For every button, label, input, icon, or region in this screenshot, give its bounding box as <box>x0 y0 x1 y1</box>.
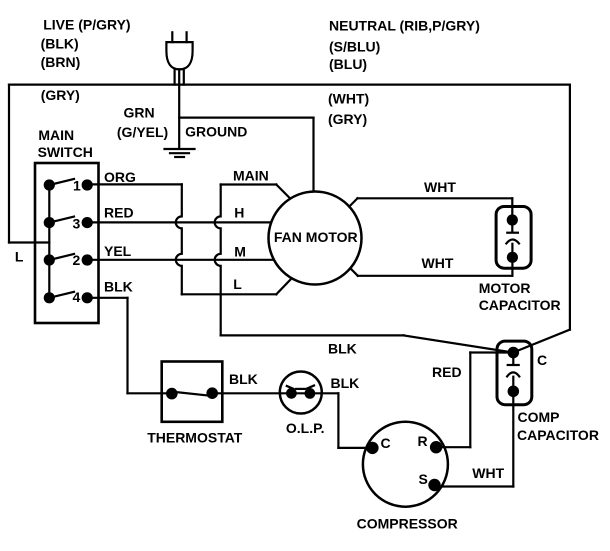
svg-text:L: L <box>233 276 242 292</box>
compressor body <box>363 422 448 507</box>
svg-text:(WHT): (WHT) <box>328 91 369 107</box>
power plug P1 <box>166 32 192 84</box>
svg-text:BLK: BLK <box>331 375 360 391</box>
wire: top supply bus (live/neutral) <box>9 83 570 85</box>
svg-text:MAIN: MAIN <box>233 167 269 183</box>
wire WHT: fan motor to motor capacitor top <box>349 198 512 220</box>
svg-text:COMPRESSOR: COMPRESSOR <box>357 516 458 532</box>
svg-text:S: S <box>419 471 428 487</box>
svg-text:GRN: GRN <box>124 105 155 121</box>
motor capacitor C1 body <box>496 207 531 269</box>
svg-text:WHT: WHT <box>422 255 454 271</box>
svg-text:YEL: YEL <box>104 243 132 259</box>
wire BLK rail to comp capacitor C node <box>221 335 514 352</box>
thermostat TH1 box <box>162 362 223 422</box>
svg-text:GROUND: GROUND <box>185 124 247 140</box>
thermostat contact dots <box>166 388 178 400</box>
svg-text:MOTOR: MOTOR <box>479 280 531 296</box>
svg-text:FAN MOTOR: FAN MOTOR <box>274 229 358 245</box>
comp capacitor C2 body <box>497 341 532 405</box>
svg-text:CAPACITOR: CAPACITOR <box>517 427 599 443</box>
svg-text:WHT: WHT <box>472 465 504 481</box>
compressor terminal S dot <box>428 479 440 491</box>
switch pole 1 lever <box>49 179 74 185</box>
switch pole 4 lever <box>49 292 74 298</box>
svg-text:(S/BLU): (S/BLU) <box>329 39 380 55</box>
wire: ground branch to fan motor frame <box>179 118 313 192</box>
svg-text:C: C <box>537 352 547 368</box>
wire RED: comp capacitor to compressor R <box>436 353 507 448</box>
wire MAIN vertical with hops, down to BLK rail <box>215 185 221 336</box>
wire: neutral leg down right side <box>569 85 571 330</box>
wire: L feed into main switch <box>9 241 49 243</box>
svg-text:(BLK): (BLK) <box>41 35 79 51</box>
compressor terminal R dot <box>430 441 442 453</box>
svg-text:2: 2 <box>73 252 81 268</box>
switch contact dots right column <box>82 179 93 190</box>
svg-text:(BLU): (BLU) <box>329 56 367 72</box>
svg-text:LIVE (P/GRY): LIVE (P/GRY) <box>43 17 130 33</box>
switch contact dots left column <box>44 179 55 190</box>
svg-text:1: 1 <box>73 178 81 194</box>
svg-text:(GRY): (GRY) <box>41 87 80 103</box>
wire ORG vertical with hops over RED and YEL <box>176 184 182 294</box>
svg-text:H: H <box>234 205 244 221</box>
motor capacitor plates <box>506 226 519 252</box>
wire BLK: thermostat to O.L.P. <box>212 392 338 394</box>
svg-text:BLK: BLK <box>104 279 133 295</box>
svg-text:3: 3 <box>73 215 81 231</box>
svg-text:(G/YEL): (G/YEL) <box>117 124 168 140</box>
fan motor M1 <box>269 192 362 285</box>
svg-text:(GRY): (GRY) <box>328 111 367 127</box>
ground symbol <box>165 149 195 157</box>
svg-text:WHT: WHT <box>424 179 456 195</box>
thermostat lever <box>172 392 211 396</box>
wire YEL: switch 2 to fan motor M terminal <box>87 259 274 261</box>
svg-text:R: R <box>418 433 428 449</box>
svg-text:COMP: COMP <box>518 409 560 425</box>
wire WHT: fan motor to motor capacitor bottom <box>350 257 512 276</box>
O.L.P. terminal dots <box>286 388 297 399</box>
switch pole 2 lever <box>49 254 74 260</box>
svg-text:L: L <box>15 249 24 265</box>
compressor terminal C dot <box>366 442 378 454</box>
wire MAIN: fan motor common stub <box>221 185 291 199</box>
switch pole 3 lever <box>49 217 74 223</box>
svg-text:NEUTRAL (RIB,P/GRY): NEUTRAL (RIB,P/GRY) <box>329 18 480 34</box>
O.L.P. overload protector body <box>280 372 322 414</box>
wire ORG run to fan motor L terminal <box>182 293 276 295</box>
svg-text:SWITCH: SWITCH <box>38 144 93 160</box>
wire ORG: switch 1 to bracket <box>87 183 182 185</box>
motor capacitor terminal dots <box>507 214 518 225</box>
wire: ground drop from plug <box>178 85 180 149</box>
svg-text:BLK: BLK <box>229 371 258 387</box>
svg-text:RED: RED <box>432 364 462 380</box>
svg-text:O.L.P.: O.L.P. <box>286 420 325 436</box>
comp capacitor terminal dots <box>508 347 520 359</box>
O.L.P. element symbol <box>287 386 314 389</box>
wire RED: switch 3 to fan motor H terminal <box>87 221 271 223</box>
wire BLK: O.L.P. to compressor C <box>338 393 372 448</box>
wire BLK: switch 4 down to thermostat <box>87 298 172 394</box>
wire: neutral diagonal to comp capacitor C node <box>513 330 570 353</box>
svg-text:CAPACITOR: CAPACITOR <box>479 297 561 313</box>
wire: live leg down left side <box>8 85 10 243</box>
svg-text:BLK: BLK <box>328 341 357 357</box>
svg-text:M: M <box>234 243 246 259</box>
svg-text:C: C <box>381 435 391 451</box>
svg-text:ORG: ORG <box>104 169 136 185</box>
wire WHT: compressor S to comp capacitor bottom <box>435 391 514 486</box>
svg-text:MAIN: MAIN <box>38 127 74 143</box>
svg-text:4: 4 <box>73 289 81 305</box>
svg-text:RED: RED <box>104 204 134 220</box>
svg-text:(BRN): (BRN) <box>41 54 81 70</box>
main switch S1 box <box>35 163 99 323</box>
main switch common bar <box>48 185 50 298</box>
svg-text:THERMOSTAT: THERMOSTAT <box>147 429 243 445</box>
comp capacitor plates <box>507 358 519 385</box>
